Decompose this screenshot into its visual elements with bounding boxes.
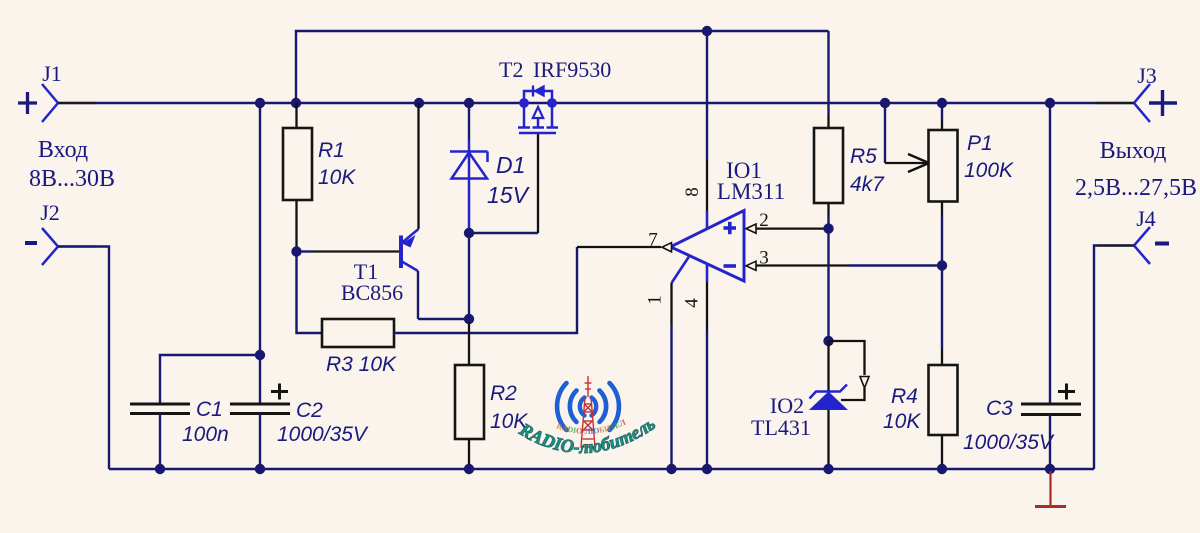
capacitor C3 [963, 103, 1081, 469]
svg-text:C3: C3 [986, 397, 1013, 420]
wire pin7 stub [577, 246, 661, 248]
svg-text:Выход: Выход [1100, 138, 1167, 164]
op-amp IO1 LM311 [671, 158, 786, 281]
svg-text:R5: R5 [850, 145, 877, 168]
svg-text:TL431: TL431 [751, 415, 811, 440]
node mosfet source [519, 98, 529, 108]
svg-text:2,5В...27,5В: 2,5В...27,5В [1075, 175, 1197, 201]
watermark logo [0, 0, 663, 458]
capacitor C1 [130, 355, 260, 469]
connector J3 [1134, 63, 1177, 122]
svg-text:4: 4 [682, 298, 703, 308]
node pin8 top rail junction [702, 26, 712, 36]
resistor R5 [814, 115, 885, 215]
ground symbol [1035, 471, 1066, 507]
wire J2 to ground rail [58, 247, 109, 470]
wire D1 node to R2 [468, 233, 470, 322]
svg-text:R1: R1 [318, 139, 345, 162]
wire P1 bottom to R4 [941, 215, 943, 350]
capacitor C2 [230, 103, 369, 469]
svg-text:C2: C2 [296, 399, 323, 422]
svg-text:15V: 15V [487, 182, 531, 208]
node main rail at x942 [937, 98, 947, 108]
svg-text:100n: 100n [182, 423, 229, 446]
zener diode D1 [450, 103, 531, 233]
node C1/C2 top junction [255, 350, 265, 360]
svg-text:LM311: LM311 [717, 179, 785, 204]
resistor R1 [283, 103, 356, 251]
pin 7 arrow [662, 243, 672, 252]
svg-text:R3 10K: R3 10K [326, 353, 397, 376]
svg-text:J2: J2 [40, 200, 60, 225]
svg-text:P1: P1 [967, 132, 993, 155]
node main rail at x260 [255, 98, 265, 108]
node TL431 cathode junction [823, 336, 833, 346]
svg-text:8: 8 [682, 187, 703, 197]
node main rail at x296 [291, 98, 301, 108]
wire R5 bottom net [827, 215, 829, 341]
pin 2 [746, 210, 829, 233]
node D1 anode / gate net [464, 228, 474, 238]
svg-text:1000/35V: 1000/35V [277, 423, 369, 446]
wire base node down to R3 [297, 252, 323, 334]
pin 4 [682, 264, 708, 469]
wire gate net [469, 232, 538, 234]
pin 8 [682, 31, 707, 229]
svg-text:R2: R2 [490, 382, 517, 405]
svg-text:1: 1 [645, 295, 666, 305]
svg-text:8В...30В: 8В...30В [29, 166, 115, 192]
transistor T1 BC856 [341, 103, 469, 319]
svg-text:4k7: 4k7 [850, 173, 885, 196]
node mosfet drain [547, 98, 557, 108]
svg-text:J4: J4 [1136, 206, 1156, 231]
resistor R2 [455, 365, 528, 469]
node pin2 junction [823, 223, 833, 233]
wire R3 to comparator output [394, 247, 577, 333]
wire R5 top feed [827, 31, 829, 115]
pin 3 [746, 248, 942, 271]
pin 1 [645, 257, 690, 470]
node main rail at x419 [414, 98, 424, 108]
resistor R4 [883, 350, 958, 469]
svg-text:1000/35V: 1000/35V [963, 431, 1055, 454]
svg-text:J1: J1 [42, 61, 62, 86]
ground rail junction nodes [155, 464, 165, 474]
svg-text:Вход: Вход [38, 137, 88, 163]
node T1 collector / R2 / D1 net [464, 314, 474, 324]
wire J2 pin stub [58, 245, 96, 247]
svg-text:T2: T2 [499, 57, 523, 82]
node main rail at x885 [880, 98, 890, 108]
node main rail at x469 [464, 98, 474, 108]
potentiometer P1 [885, 103, 1014, 215]
svg-text:3: 3 [759, 248, 769, 269]
svg-text:IRF9530: IRF9530 [533, 57, 611, 82]
wire J3 pin stub [1096, 102, 1134, 104]
svg-text:10K: 10K [883, 410, 921, 433]
node P1 bottom / pin3 net [937, 260, 947, 270]
shunt ref IO2 TL431 [751, 341, 869, 469]
svg-text:7: 7 [648, 230, 658, 251]
svg-text:10K: 10K [318, 166, 356, 189]
connector J4 [1134, 206, 1169, 264]
mosfet T2 IRF9530 [499, 57, 611, 133]
wire base node to T1 [297, 250, 313, 252]
wire J4 pin stub [1097, 244, 1134, 246]
wire top rail [296, 31, 829, 103]
svg-text:J3: J3 [1137, 63, 1157, 88]
svg-text:C1: C1 [196, 398, 223, 421]
wire main +V rail [58, 102, 1134, 104]
wire J1 pin stub [58, 102, 96, 104]
connector J2 [25, 200, 60, 265]
svg-text:100K: 100K [964, 159, 1014, 182]
svg-text:BC856: BC856 [341, 280, 403, 305]
resistor R3 [322, 319, 397, 376]
svg-text:R4: R4 [891, 385, 918, 408]
connector J1 [18, 61, 62, 122]
wire bottom ground rail [109, 468, 1094, 470]
svg-text:2: 2 [759, 210, 769, 231]
svg-text:D1: D1 [496, 152, 525, 178]
wire J4 branch [1094, 246, 1134, 470]
node base of R1 / T1 base net [291, 246, 301, 256]
node main rail at x1050 [1045, 98, 1055, 108]
